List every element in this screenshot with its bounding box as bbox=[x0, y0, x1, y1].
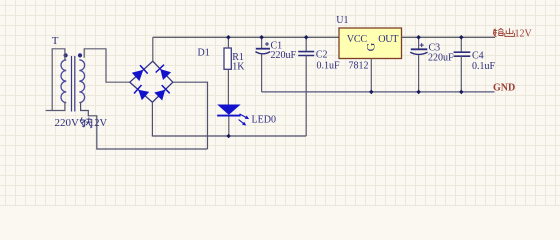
svg-text:0.1uF: 0.1uF bbox=[317, 60, 341, 71]
junction GND rail at U1 pin bbox=[369, 90, 374, 95]
LED LED0 triangle bbox=[217, 105, 240, 115]
capacitor C1 bottom curved plate bbox=[255, 52, 270, 54]
svg-text:12V: 12V bbox=[89, 118, 108, 129]
regulator U1 ground pin wire bbox=[370, 59, 372, 92]
svg-text:GND: GND bbox=[493, 82, 515, 93]
wire secondary bottom lead bbox=[81, 102, 208, 149]
resistor R1 bottom lead bbox=[227, 69, 229, 104]
capacitor C3 top lead bbox=[418, 37, 420, 48]
svg-text:0.1uF: 0.1uF bbox=[472, 61, 496, 72]
capacitor C3 top plate bbox=[411, 48, 428, 50]
capacitor C1 top plate bbox=[256, 48, 270, 50]
junction out rail at C3 bbox=[416, 35, 421, 40]
junction top rail at C2 bbox=[304, 35, 309, 40]
junction top rail at C1 bbox=[259, 35, 264, 40]
svg-text:C2: C2 bbox=[316, 50, 328, 61]
bridge diode bottom-right (cathode at right vertex) bbox=[154, 85, 169, 100]
capacitor C4 bottom lead bbox=[460, 56, 462, 92]
LED LED0 emission arrows bbox=[239, 114, 250, 126]
svg-text:220V: 220V bbox=[55, 117, 80, 129]
svg-text:1K: 1K bbox=[232, 61, 245, 72]
capacitor C2 top lead bbox=[305, 37, 307, 51]
LED bottom lead bbox=[228, 117, 230, 137]
resistor R1 body bbox=[224, 48, 231, 69]
regulator U1 body bbox=[339, 28, 402, 59]
transformer T core bbox=[72, 56, 75, 112]
junction GND rail at C4 bbox=[459, 90, 464, 95]
capacitor C3 bottom curved plate bbox=[410, 52, 427, 54]
capacitor C1 top lead bbox=[261, 37, 263, 48]
wire primary top lead bbox=[52, 49, 65, 111]
svg-text:220uF: 220uF bbox=[428, 52, 454, 63]
net label 输出12V bbox=[493, 28, 514, 37]
svg-text:G: G bbox=[364, 42, 378, 51]
svg-text:7812: 7812 bbox=[349, 61, 369, 72]
capacitor C2 top plate bbox=[298, 51, 314, 53]
svg-text:LED0: LED0 bbox=[252, 115, 276, 126]
capacitor C3 plus sign bbox=[420, 43, 424, 47]
LED LED0 cathode bar bbox=[217, 115, 240, 117]
capacitor C4 bottom plate bbox=[454, 55, 471, 57]
svg-text:12V: 12V bbox=[515, 29, 533, 40]
junction GND rail at C3 bbox=[416, 90, 421, 95]
capacitor C1 plus sign bbox=[265, 42, 269, 46]
resistor R1 top lead bbox=[227, 37, 229, 48]
capacitor C3 bottom lead bbox=[418, 55, 420, 92]
bridge diode top-right (cathode at top vertex) bbox=[156, 65, 171, 80]
svg-text:T: T bbox=[52, 35, 59, 47]
wire secondary top lead to bridge left vertex bbox=[84, 49, 130, 82]
capacitor C1 bottom lead bbox=[261, 54, 263, 92]
junction top rail at R1 bbox=[226, 35, 231, 40]
bridge diode top-left (cathode at top vertex) bbox=[132, 65, 148, 81]
bridge rectifier D1 diamond bbox=[130, 61, 173, 102]
transformer T primary coil bbox=[61, 60, 66, 103]
transformer secondary polarity dot bbox=[78, 53, 82, 57]
bridge diode bottom-left (cathode at left vertex) bbox=[134, 85, 149, 100]
capacitor C2 bottom lead and ground return to GND rail bbox=[305, 56, 307, 137]
capacitor C4 top plate bbox=[454, 51, 471, 53]
svg-text:220uF: 220uF bbox=[271, 50, 297, 61]
transformer primary polarity dot bbox=[64, 53, 68, 57]
capacitor C2 bottom plate bbox=[298, 55, 314, 57]
junction out rail at C4 bbox=[459, 35, 464, 40]
wire primary bottom lead bbox=[46, 102, 65, 111]
capacitor C4 top lead bbox=[460, 37, 462, 52]
svg-text:OUT: OUT bbox=[378, 34, 399, 45]
junction LED return wire bbox=[226, 134, 231, 139]
svg-text:U1: U1 bbox=[336, 15, 348, 26]
wire GND rail bbox=[262, 91, 495, 93]
wire U1 OUT to output rail bbox=[402, 36, 496, 38]
wire +12V top rail bbox=[153, 36, 339, 38]
wire bridge right vertex to AC return bbox=[173, 82, 208, 149]
svg-text:C4: C4 bbox=[472, 50, 484, 61]
wire bridge bottom vertex to ground return bbox=[152, 102, 306, 136]
svg-text:D1: D1 bbox=[198, 48, 210, 59]
wire bridge top vertex to +12V rail bbox=[152, 37, 154, 61]
transformer T secondary coil bbox=[79, 60, 84, 103]
